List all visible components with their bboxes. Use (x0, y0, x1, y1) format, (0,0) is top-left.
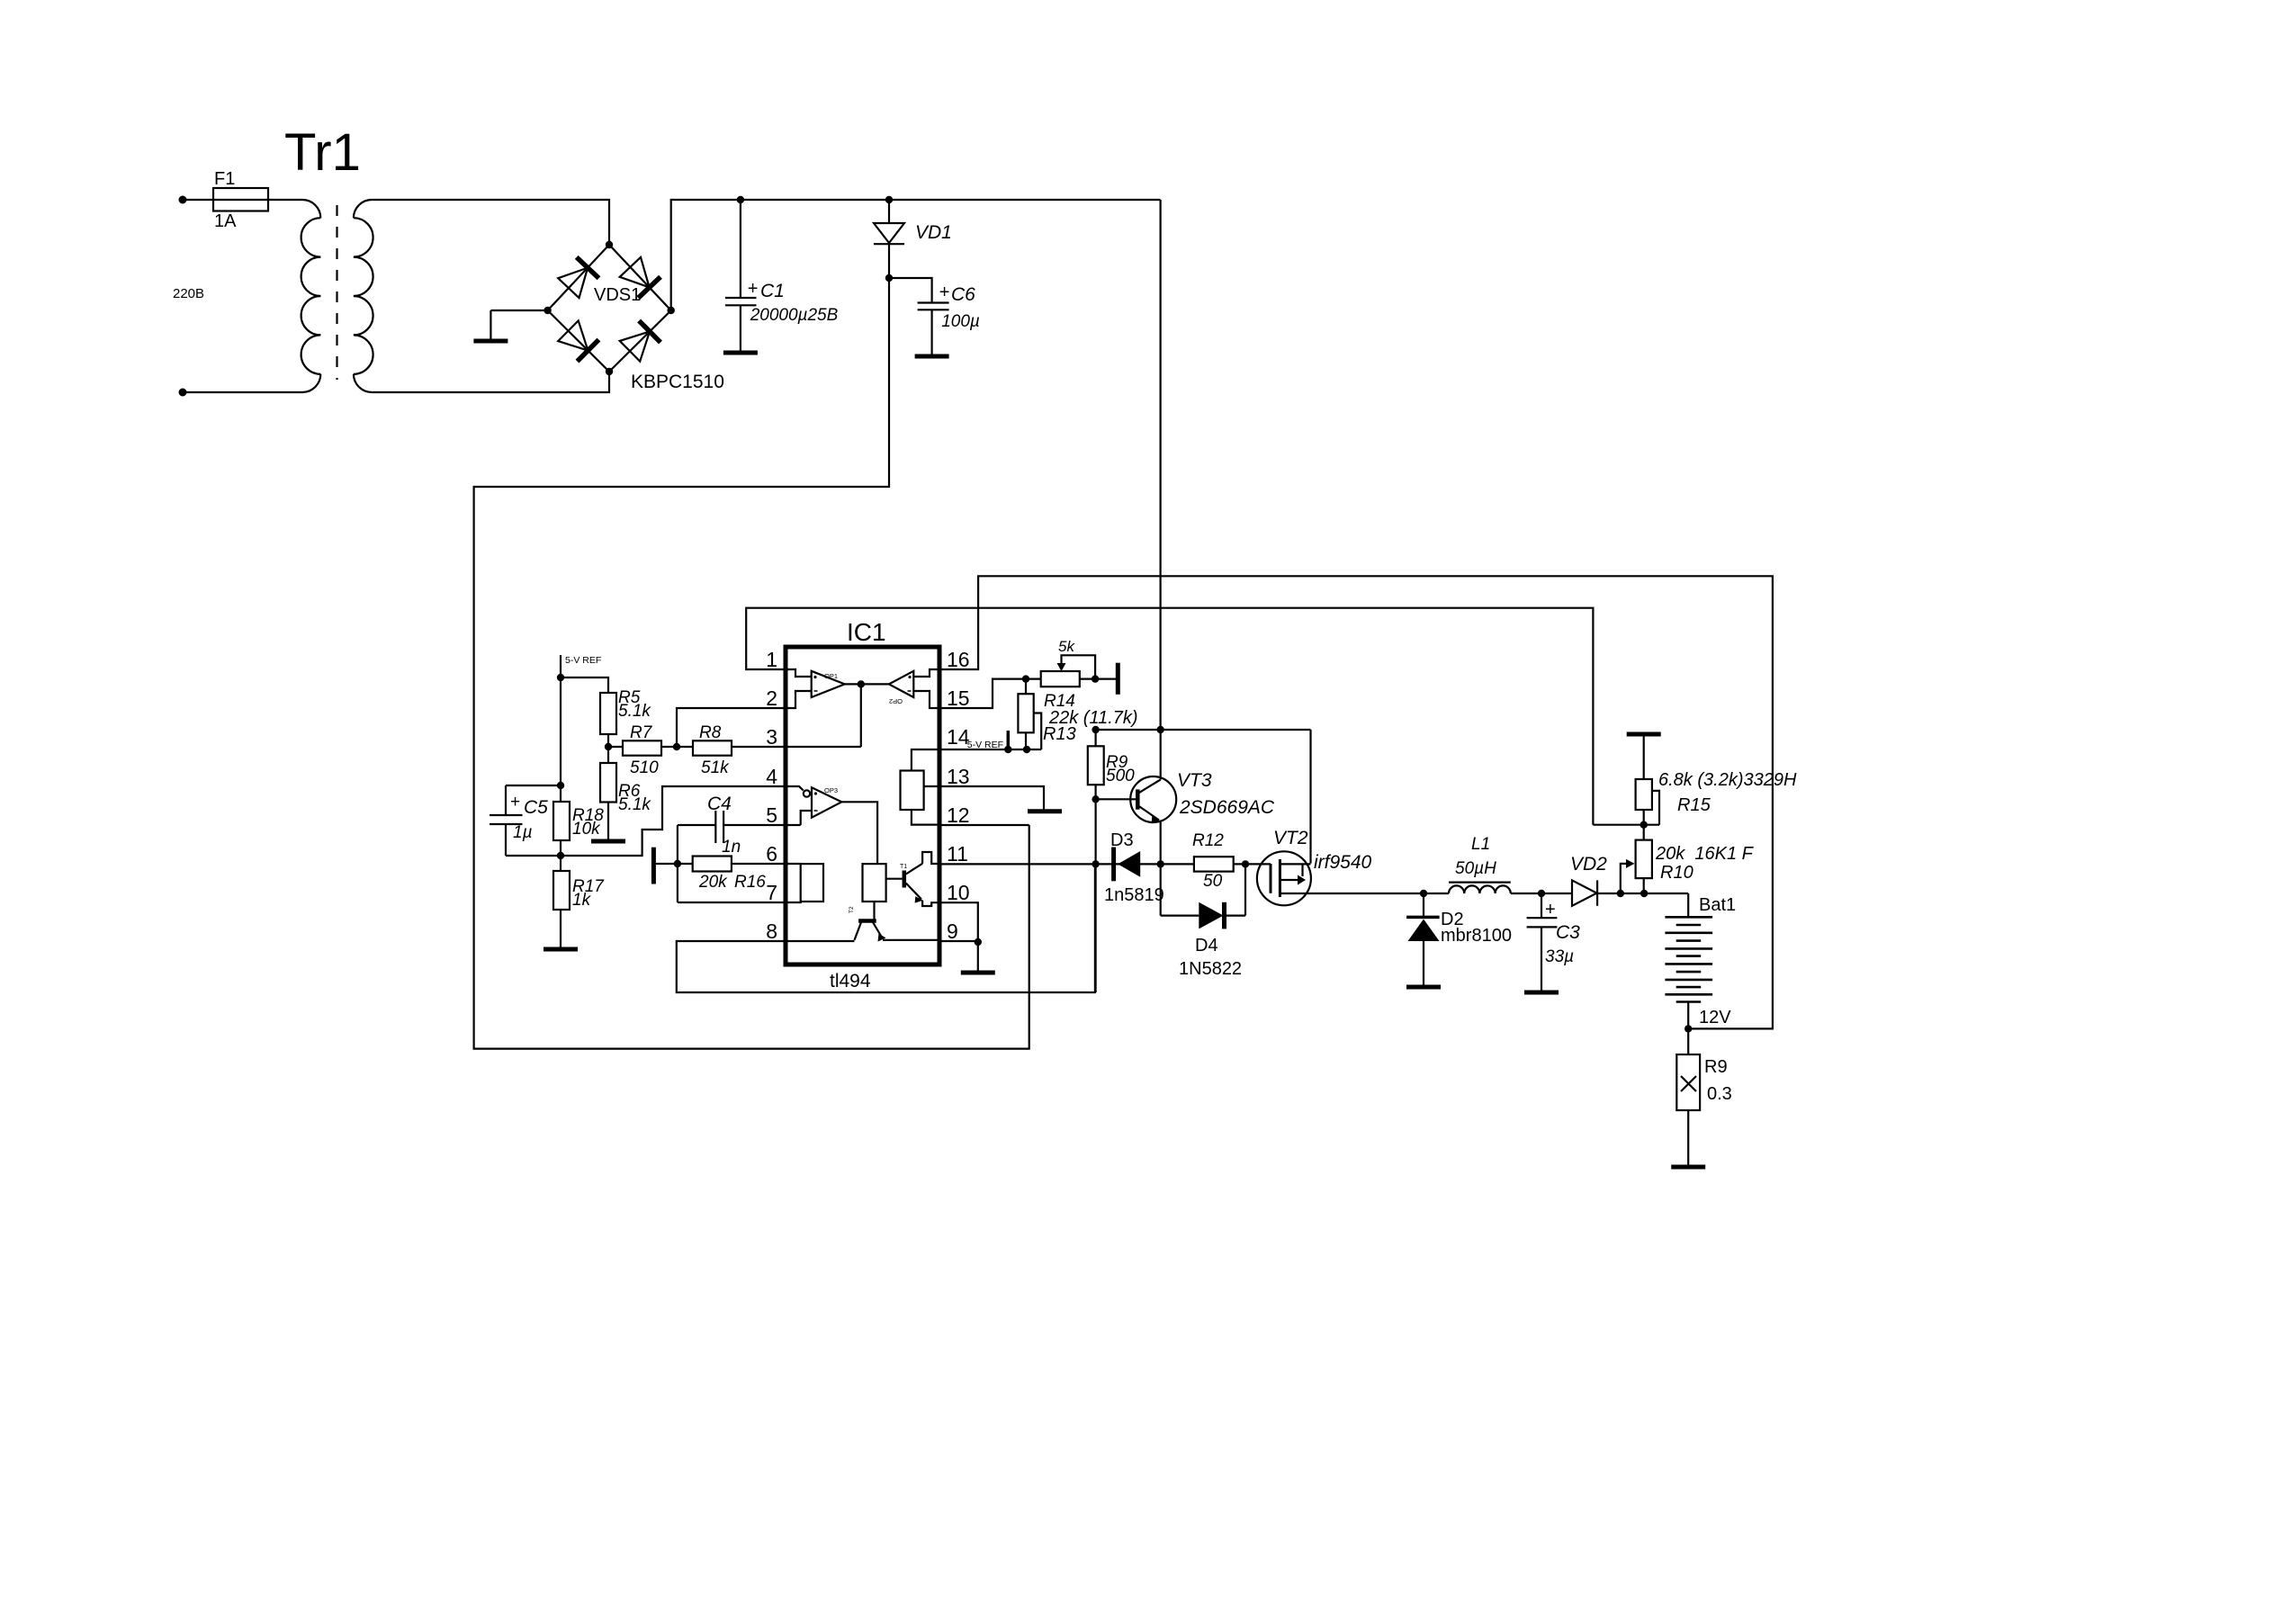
svg-text:R9: R9 (1704, 1057, 1728, 1077)
svg-text:IC1: IC1 (847, 618, 886, 646)
svg-text:4: 4 (766, 765, 777, 788)
svg-text:220B: 220B (173, 286, 204, 301)
svg-text:1k: 1k (572, 891, 592, 910)
svg-text:OP2: OP2 (889, 697, 903, 705)
svg-text:5-V REF: 5-V REF (967, 740, 1003, 750)
svg-text:T1: T1 (900, 864, 907, 870)
svg-text:5k: 5k (1058, 638, 1075, 655)
svg-text:9: 9 (947, 920, 958, 943)
svg-text:15: 15 (947, 686, 970, 710)
svg-text:R14: R14 (1044, 692, 1075, 711)
svg-text:7: 7 (766, 881, 777, 904)
svg-text:16: 16 (947, 648, 970, 671)
svg-text:+: + (510, 793, 520, 812)
svg-text:1n5819: 1n5819 (1104, 885, 1164, 905)
svg-text:5-V REF: 5-V REF (565, 655, 601, 666)
svg-text:KBPC1510: KBPC1510 (631, 372, 724, 392)
svg-text:T2: T2 (849, 906, 855, 913)
svg-text:Tr1: Tr1 (284, 123, 361, 182)
svg-text:VDS1: VDS1 (594, 285, 641, 305)
svg-text:6.8k (3.2k)3329H: 6.8k (3.2k)3329H (1658, 770, 1797, 790)
svg-text:C5: C5 (524, 797, 548, 818)
svg-text:R12: R12 (1192, 831, 1224, 850)
svg-text:1: 1 (766, 648, 777, 671)
svg-text:Bat1: Bat1 (1699, 895, 1736, 915)
svg-text:20000µ25B: 20000µ25B (750, 306, 839, 325)
svg-text:irf9540: irf9540 (1314, 852, 1372, 873)
svg-text:2SD669AC: 2SD669AC (1179, 797, 1275, 818)
svg-text:1A: 1A (214, 211, 237, 231)
svg-text:D3: D3 (1110, 830, 1134, 850)
svg-text:11: 11 (947, 842, 968, 866)
svg-text:VD1: VD1 (915, 222, 952, 243)
svg-text:OP1: OP1 (824, 672, 838, 680)
svg-text:C4: C4 (707, 794, 732, 814)
svg-text:100µ: 100µ (941, 312, 980, 331)
svg-text:+: + (748, 279, 759, 299)
svg-text:20k 16K1 F: 20k 16K1 F (1655, 844, 1755, 864)
svg-text:50: 50 (1203, 872, 1223, 891)
svg-text:12: 12 (947, 803, 970, 827)
svg-text:R7: R7 (630, 723, 653, 742)
svg-text:10: 10 (947, 881, 970, 904)
svg-text:0.3: 0.3 (1707, 1084, 1732, 1104)
svg-text:R15: R15 (1677, 795, 1712, 815)
svg-text:13: 13 (947, 765, 970, 788)
svg-text:510: 510 (630, 758, 659, 777)
svg-text:R13: R13 (1043, 724, 1076, 744)
svg-text:C6: C6 (951, 284, 975, 305)
svg-text:L1: L1 (1471, 835, 1490, 854)
svg-text:1N5822: 1N5822 (1179, 959, 1242, 979)
svg-text:2: 2 (766, 686, 777, 710)
svg-text:C3: C3 (1556, 922, 1580, 943)
svg-text:51k: 51k (701, 758, 730, 777)
svg-text:12V: 12V (1699, 1008, 1731, 1027)
svg-text:33µ: 33µ (1545, 947, 1574, 966)
svg-text:C1: C1 (760, 281, 785, 301)
svg-text:+: + (1545, 900, 1556, 920)
svg-text:50µH: 50µH (1455, 859, 1496, 878)
svg-text:1n: 1n (722, 838, 741, 857)
svg-text:5: 5 (766, 803, 777, 827)
svg-text:OP3: OP3 (824, 786, 838, 794)
svg-text:VD2: VD2 (1570, 854, 1607, 875)
svg-text:1µ: 1µ (513, 823, 533, 842)
svg-text:tl494: tl494 (830, 971, 871, 991)
svg-text:+: + (939, 283, 950, 302)
svg-text:5.1k: 5.1k (618, 702, 651, 721)
svg-text:20k: 20k (698, 873, 728, 892)
svg-text:8: 8 (766, 920, 777, 943)
svg-text:R16: R16 (734, 873, 766, 892)
svg-text:D4: D4 (1195, 936, 1218, 956)
svg-text:R10: R10 (1660, 863, 1694, 883)
svg-text:VT3: VT3 (1177, 770, 1212, 791)
svg-text:F1: F1 (214, 169, 235, 189)
svg-text:mbr8100: mbr8100 (1441, 926, 1512, 946)
svg-text:6: 6 (766, 842, 777, 866)
svg-text:10k: 10k (572, 820, 601, 839)
svg-text:3: 3 (766, 725, 777, 749)
svg-text:R8: R8 (699, 723, 722, 742)
svg-text:VT2: VT2 (1273, 828, 1308, 848)
svg-text:5.1k: 5.1k (618, 795, 651, 814)
svg-text:500: 500 (1106, 767, 1135, 785)
